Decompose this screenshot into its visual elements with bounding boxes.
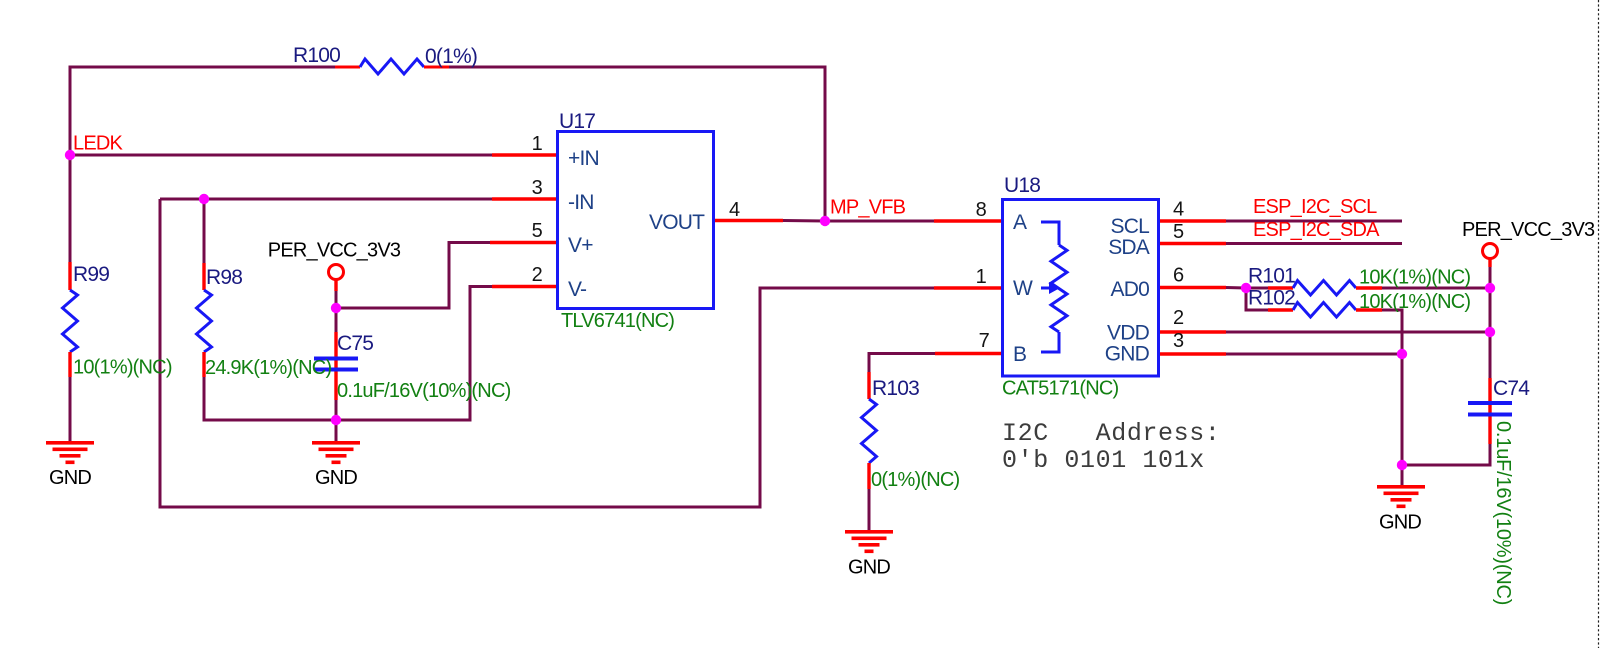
pin 5 V+ stub <box>490 241 557 244</box>
U18 pot symbol: resistor body <box>1051 245 1067 332</box>
U18 pot symbol: A bracket <box>1041 222 1059 245</box>
svg-text:R103: R103 <box>872 377 919 400</box>
power symbol PER_VCC_3V3 right <box>1483 244 1498 259</box>
svg-text:3: 3 <box>1173 330 1184 352</box>
svg-text:CAT5171(NC): CAT5171(NC) <box>1002 378 1119 400</box>
pin 5 SDA stub <box>1159 242 1226 245</box>
svg-text:0(1%): 0(1%) <box>425 45 477 68</box>
svg-text:GND: GND <box>49 467 91 489</box>
junction node LEDK <box>65 150 75 160</box>
wire junction to R101 <box>1246 287 1268 290</box>
capacitor C75 plates <box>314 357 358 361</box>
resistor R102 right pin <box>1356 308 1382 311</box>
svg-text:0.1uF/16V(10%)(NC): 0.1uF/16V(10%)(NC) <box>1492 421 1514 605</box>
wire MP_VFB to U18 pin A <box>825 220 934 223</box>
svg-text:SDA: SDA <box>1108 236 1150 259</box>
svg-text:MP_VFB: MP_VFB <box>830 197 906 219</box>
U18 pot symbol: B bracket <box>1041 332 1059 352</box>
svg-text:TLV6741(NC): TLV6741(NC) <box>561 310 674 332</box>
svg-text:1: 1 <box>976 266 987 288</box>
wire R98 top branch <box>203 199 206 263</box>
pin 1 +IN stub <box>492 153 557 156</box>
pin 8 A stub <box>934 219 1001 222</box>
junction node AD0/R101/R102 <box>1241 283 1251 293</box>
wire GND pin to riser <box>1226 353 1402 356</box>
svg-text:24.9K(1%)(NC): 24.9K(1%)(NC) <box>205 357 331 379</box>
resistor R103 bottom pin <box>867 463 870 489</box>
pin 3 -IN stub <box>492 197 557 200</box>
svg-text:GND: GND <box>315 467 357 489</box>
power symbol PER_VCC_3V3 left <box>329 265 344 280</box>
svg-text:A: A <box>1013 211 1027 234</box>
junction node VDD/power rail <box>1485 327 1495 337</box>
resistor R103 body <box>862 399 877 463</box>
pin 7 B stub <box>935 352 1001 355</box>
pin 3 GND stub <box>1159 352 1226 355</box>
resistor R101 left pin <box>1268 286 1293 289</box>
svg-text:4: 4 <box>729 199 740 221</box>
U18 pot symbol: wiper arrow <box>1041 287 1050 290</box>
svg-text:SCL: SCL <box>1111 215 1150 238</box>
svg-text:AD0: AD0 <box>1111 278 1150 301</box>
pin 1 W stub <box>934 286 1001 289</box>
resistor R102 left pin <box>1268 308 1293 311</box>
svg-text:4: 4 <box>1173 199 1184 221</box>
wire SCL net <box>1226 220 1402 223</box>
svg-text:8: 8 <box>976 199 987 221</box>
wire R99 to GND <box>69 377 72 441</box>
svg-text:ESP_I2C_SCL: ESP_I2C_SCL <box>1253 196 1377 218</box>
svg-text:R102: R102 <box>1248 287 1295 310</box>
capacitor C75 top pin <box>334 332 337 400</box>
U18 pot wiper arrowhead <box>1049 282 1060 294</box>
resistor R100 right pin <box>424 66 449 69</box>
resistor R103 top pin <box>867 372 870 399</box>
digital potentiometer U18 box <box>1003 200 1159 377</box>
wire C75 bottom to rail <box>335 400 338 420</box>
svg-text:I2C Address:: I2C Address: <box>1002 419 1220 448</box>
wire VOUT to MP_VFB node <box>783 219 825 223</box>
pin 4 VOUT stub <box>714 219 783 222</box>
resistor R101 right pin <box>1356 286 1382 289</box>
svg-text:2: 2 <box>532 264 543 286</box>
svg-text:6: 6 <box>1173 265 1184 287</box>
svg-text:7: 7 <box>979 330 990 352</box>
svg-text:-IN: -IN <box>568 191 594 214</box>
junction node GND pin riser <box>1397 349 1407 359</box>
svg-text:2: 2 <box>1173 307 1184 329</box>
svg-text:GND: GND <box>848 557 890 579</box>
wire R103 to GND <box>868 489 871 530</box>
svg-text:PER_VCC_3V3: PER_VCC_3V3 <box>268 240 401 262</box>
svg-text:PER_VCC_3V3: PER_VCC_3V3 <box>1462 219 1595 241</box>
wire junction down to R102 <box>1246 288 1268 310</box>
svg-text:1: 1 <box>532 133 543 155</box>
wire R101 to power rail <box>1382 287 1490 290</box>
svg-text:5: 5 <box>532 220 543 242</box>
ground symbol GND (C75 rail) <box>312 441 360 464</box>
junction node V+/PER_VCC <box>331 303 341 313</box>
wire R98 bottom to GND rail and V- riser <box>204 287 492 421</box>
svg-text:V-: V- <box>568 278 587 301</box>
wire SDA net <box>1226 242 1402 245</box>
pin 4 SCL stub <box>1159 219 1226 222</box>
wire power to C75 node <box>335 291 338 332</box>
svg-text:10K(1%)(NC): 10K(1%)(NC) <box>1359 291 1470 313</box>
resistor R100 body <box>360 59 424 74</box>
resistor R98 top pin <box>202 263 205 290</box>
junction node MP_VFB <box>820 216 830 226</box>
junction node R98/-IN <box>199 194 209 204</box>
svg-text:VOUT: VOUT <box>649 211 705 234</box>
svg-text:GND: GND <box>1105 343 1150 366</box>
wire VDD to power rail <box>1226 331 1490 334</box>
resistor R99 body <box>63 290 78 352</box>
wire feedback loop W to -IN <box>160 199 934 507</box>
pin 6 AD0 stub <box>1159 286 1226 289</box>
wire C74 bottom to GND riser <box>1402 444 1490 465</box>
sheet border (dotted right edge) <box>1598 0 1600 648</box>
svg-text:+IN: +IN <box>568 147 599 170</box>
svg-text:R98: R98 <box>206 266 242 289</box>
svg-text:ESP_I2C_SDA: ESP_I2C_SDA <box>1253 219 1380 241</box>
svg-text:VDD: VDD <box>1107 322 1150 345</box>
wire R100 left net: LEDK vertical and top horizontal <box>70 67 335 262</box>
svg-text:R100: R100 <box>293 44 340 67</box>
resistor R99 top pin <box>68 262 71 290</box>
svg-text:C75: C75 <box>337 332 373 355</box>
svg-text:10(1%)(NC): 10(1%)(NC) <box>73 357 172 379</box>
resistor R98 body <box>197 290 212 352</box>
wire -IN horizontal <box>160 198 492 201</box>
wire power rail down <box>1489 267 1492 378</box>
wire AD0 to junction <box>1226 286 1246 290</box>
resistor R1OO left pin <box>335 66 360 69</box>
svg-text:U18: U18 <box>1004 174 1040 197</box>
resistor R102 body <box>1293 303 1356 318</box>
wire B to R103 <box>869 354 935 373</box>
ground symbol GND (R103) <box>845 530 893 553</box>
svg-text:0.1uF/16V(10%)(NC): 0.1uF/16V(10%)(NC) <box>337 380 511 402</box>
svg-text:10K(1%)(NC): 10K(1%)(NC) <box>1359 267 1470 289</box>
ground symbol GND (C74/U18) <box>1377 485 1425 508</box>
svg-text:R99: R99 <box>73 263 109 286</box>
wire V+ branch from PER_VCC_3V3 <box>336 243 490 309</box>
capacitor C74 plates <box>1468 401 1512 405</box>
wire LEDK horizontal to U17 <box>70 154 492 157</box>
junction node R101/power rail <box>1485 283 1495 293</box>
svg-text:V+: V+ <box>568 234 593 257</box>
junction node C75 rail <box>331 415 341 425</box>
svg-text:GND: GND <box>1379 512 1421 534</box>
svg-text:W: W <box>1013 277 1033 300</box>
wire R100 right: top horizontal to MP_VFB down <box>449 67 825 221</box>
resistor R98 bottom pin <box>202 352 205 377</box>
svg-text:R101: R101 <box>1248 265 1295 288</box>
resistor R99 bottom pin <box>68 352 71 377</box>
svg-text:0'b 0101 101x: 0'b 0101 101x <box>1002 446 1205 475</box>
svg-text:C74: C74 <box>1493 377 1530 400</box>
svg-text:U17: U17 <box>559 110 595 133</box>
junction node C74/GND riser <box>1397 460 1407 470</box>
pin 2 V- stub <box>492 285 557 288</box>
svg-text:5: 5 <box>1173 221 1184 243</box>
wire GND stub below rail <box>335 420 338 441</box>
ground symbol GND (R99) <box>46 441 94 464</box>
op-amp U17 box <box>558 132 714 309</box>
capacitor C74 top pin <box>1488 378 1491 444</box>
svg-text:3: 3 <box>532 177 543 199</box>
svg-text:0(1%)(NC): 0(1%)(NC) <box>871 469 959 491</box>
resistor R101 body <box>1293 281 1356 296</box>
svg-text:LEDK: LEDK <box>73 133 124 155</box>
svg-text:B: B <box>1013 343 1026 366</box>
wire R102 to GND riser <box>1382 310 1402 485</box>
pin 2 VDD stub <box>1159 330 1226 333</box>
